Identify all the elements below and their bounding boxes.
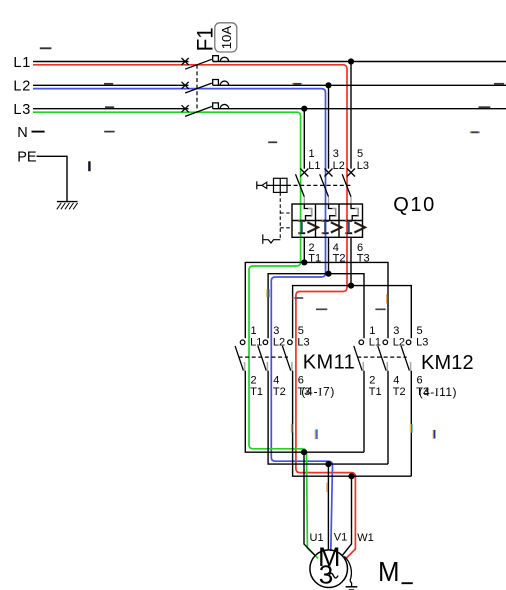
svg-text:F1: F1 xyxy=(192,27,217,51)
KM12 pole 3 gray bar xyxy=(410,362,412,371)
svg-text:T3: T3 xyxy=(416,386,429,398)
svg-text:L3: L3 xyxy=(357,160,369,172)
F1 pole 1 xyxy=(182,56,229,69)
KM11 pole 2 gray bar xyxy=(266,362,268,371)
wire label dash N right xyxy=(470,131,480,133)
svg-text:4: 4 xyxy=(273,374,279,386)
wire drop L2 to Q10 pole2 xyxy=(328,85,330,168)
wire KM11 T1 join KM12 T1 xyxy=(245,371,364,452)
Q10 terminal labels top xyxy=(308,148,369,172)
KM12 terminal labels xyxy=(369,325,429,398)
interruption marker on KM11 pole3 xyxy=(292,424,294,433)
PE wire xyxy=(37,156,68,201)
phase wire L1 red xyxy=(33,65,355,560)
Q10 gray contact stubs xyxy=(304,197,351,209)
interruption marker KM12 inner xyxy=(433,430,434,439)
wire KM12 T2 down xyxy=(387,371,389,464)
svg-text:2: 2 xyxy=(369,374,375,386)
motor sine symbol xyxy=(329,573,338,578)
svg-text:Q10: Q10 xyxy=(393,194,434,216)
svg-text:L2: L2 xyxy=(333,160,345,172)
wire label dash above L3 left xyxy=(105,106,114,108)
Q10 actuator arrow xyxy=(257,181,274,189)
Q10 thermal release 1 xyxy=(304,204,311,221)
bus L3 wire xyxy=(33,108,506,110)
bus N wire stub xyxy=(32,131,45,133)
svg-text:3: 3 xyxy=(319,559,333,589)
wire KM12 T1 down xyxy=(363,371,365,452)
motor M1 circle xyxy=(310,550,348,588)
F1 linkage dashed xyxy=(196,65,198,113)
svg-text:L3: L3 xyxy=(416,336,428,348)
svg-text:PE: PE xyxy=(17,150,37,166)
wire label dash N xyxy=(104,131,114,133)
KM12 linkage dashed xyxy=(357,356,407,358)
interruption marker on KM12 pole3 xyxy=(410,424,412,433)
Q10 trip release symbol xyxy=(263,234,281,243)
Q10 bottom terminal wires xyxy=(304,237,351,285)
svg-text:1: 1 xyxy=(369,325,375,337)
svg-text:L3: L3 xyxy=(297,336,309,348)
svg-text:L3: L3 xyxy=(13,102,31,118)
KM11 pole 2 contact xyxy=(258,340,268,371)
interruption marker on KM12 pole2 xyxy=(386,294,388,304)
interruption marker on V1 wire xyxy=(326,483,328,493)
wire label dash KM11 inner xyxy=(316,308,327,310)
svg-text:3: 3 xyxy=(393,325,399,337)
Q10 pole 1 contact xyxy=(296,169,309,197)
wire drop L3 to Q10 pole1 xyxy=(303,109,305,169)
KM11 pole 1 gray bar xyxy=(244,362,246,371)
svg-text:N: N xyxy=(17,125,27,141)
wire label dash above L2 mid xyxy=(292,83,302,85)
svg-text:2: 2 xyxy=(251,374,257,386)
KM12 pole 2 contact xyxy=(378,340,388,371)
svg-text:L1: L1 xyxy=(13,55,31,71)
wire label dash above L2 left xyxy=(104,83,113,85)
motor earth arc xyxy=(344,556,351,580)
svg-text:10A: 10A xyxy=(219,25,234,49)
wire T3 to KM12 pole3 xyxy=(351,286,411,339)
wire label dash above L2 right xyxy=(494,83,504,85)
F1 value box 10A xyxy=(215,23,237,52)
KM12 pole 1 contact xyxy=(354,340,364,371)
Q10 overcurrent release I> 3 xyxy=(345,221,365,233)
svg-text:4: 4 xyxy=(393,374,399,386)
node L2 tap xyxy=(325,82,331,88)
svg-text:L1: L1 xyxy=(308,160,320,172)
wire label dash KM12 inner xyxy=(375,308,385,310)
node T3 xyxy=(348,283,354,289)
node L3 tap xyxy=(301,106,307,112)
wire label dash KM11 T3 loop xyxy=(294,297,303,299)
Q10 pole 3 contact xyxy=(342,169,355,197)
svg-text:3: 3 xyxy=(333,148,339,160)
wire T1 to KM11 pole1 xyxy=(245,262,304,338)
wire W1 to motor xyxy=(342,476,351,556)
svg-text:M: M xyxy=(378,556,400,587)
KM12 pole 2 gray bar xyxy=(386,362,388,371)
node L1 tap xyxy=(348,58,354,64)
interruption marker I near PE xyxy=(88,161,90,171)
wire T2 to KM12 pole1 xyxy=(329,274,365,339)
Q10 linkage dashed xyxy=(287,184,352,186)
svg-text:T2: T2 xyxy=(273,386,286,398)
phase wire L2 blue xyxy=(33,89,333,551)
Q10 overcurrent release I> 1 xyxy=(298,221,318,233)
svg-text:5: 5 xyxy=(357,148,363,160)
Q10 manual operator crossed box xyxy=(274,178,288,192)
bus L1 wire xyxy=(33,61,506,63)
svg-text:T1: T1 xyxy=(250,386,263,398)
wire T3 to KM11 pole3 xyxy=(293,286,351,339)
svg-text:6: 6 xyxy=(417,374,423,386)
F1 pole 3 xyxy=(182,103,229,117)
motor terminal labels xyxy=(310,532,374,545)
svg-text:W1: W1 xyxy=(357,532,374,544)
node V1 xyxy=(325,461,331,467)
svg-text:L2: L2 xyxy=(13,79,31,95)
motor earth symbol xyxy=(346,581,358,590)
svg-text:3: 3 xyxy=(273,325,279,337)
KM11 pole 1 contact xyxy=(235,340,245,371)
svg-text:L1: L1 xyxy=(250,336,262,348)
wire label dash above L3 right xyxy=(479,106,491,108)
wire T1 to KM12 pole2 xyxy=(304,262,388,338)
KM11 pole 3 contact xyxy=(282,340,292,371)
svg-text:L2: L2 xyxy=(393,336,405,348)
F1 pole 2 xyxy=(182,80,229,94)
wire KM11 T3 join KM12 T3 xyxy=(293,371,412,476)
Q10 terminal labels bottom xyxy=(308,242,369,265)
Q10 thermal release 2 xyxy=(329,204,336,221)
phase wire L3 green xyxy=(33,112,318,558)
svg-text:T1: T1 xyxy=(369,386,382,398)
svg-text:KM12: KM12 xyxy=(421,352,474,374)
bus L2 wire xyxy=(33,84,506,86)
wire U1 to motor xyxy=(304,452,315,556)
Q10 thermal release 3 xyxy=(351,204,358,221)
KM11 pole 3 gray bar xyxy=(291,362,293,371)
KM12 pole 3 contact xyxy=(401,340,411,371)
wire V1 to motor xyxy=(327,464,329,550)
svg-text:6: 6 xyxy=(298,374,304,386)
svg-text:5: 5 xyxy=(298,325,304,337)
node W1 xyxy=(348,473,354,479)
svg-text:1: 1 xyxy=(251,325,257,337)
svg-text:T2: T2 xyxy=(393,386,406,398)
svg-text:T3: T3 xyxy=(297,386,310,398)
Q10 release linkage dashed vertical xyxy=(280,192,292,239)
Q10 overcurrent release I> 2 xyxy=(322,221,342,233)
interruption marker KM11 inner xyxy=(315,429,317,439)
wire KM12 T3 down xyxy=(410,371,412,476)
KM11 linkage dashed xyxy=(239,356,289,358)
svg-text:KM11: KM11 xyxy=(303,352,355,374)
KM12 pole 1 gray bar xyxy=(362,362,364,371)
svg-text:5: 5 xyxy=(417,325,423,337)
svg-text:1: 1 xyxy=(309,148,315,160)
node T1 xyxy=(301,259,307,265)
Q10 pole 2 contact xyxy=(320,169,333,197)
ground xyxy=(57,202,78,210)
wire KM11 T2 join KM12 T2 xyxy=(268,371,388,464)
svg-text:L1: L1 xyxy=(369,336,381,348)
wire label dash above L1 xyxy=(40,47,52,49)
wire label dash near Q10 drop xyxy=(268,141,277,143)
interruption marker on KM11 pole2 xyxy=(267,289,269,297)
node T2 xyxy=(325,271,331,277)
KM11 terminal labels xyxy=(250,325,310,398)
wire drop L1 to Q10 pole3 xyxy=(350,62,352,169)
node U1 xyxy=(301,449,307,455)
wire T2 to KM11 pole2 xyxy=(268,274,328,339)
Q10 release box xyxy=(292,204,363,237)
